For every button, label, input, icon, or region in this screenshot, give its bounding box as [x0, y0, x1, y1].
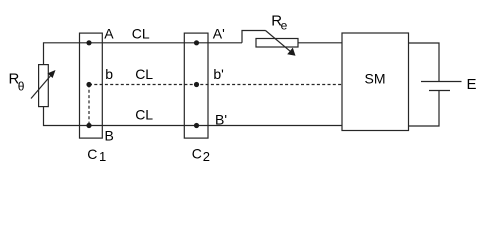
- svg-text:2: 2: [203, 149, 210, 164]
- battery plate short: [429, 90, 450, 92]
- arrowhead Rtheta: [48, 70, 56, 78]
- node b': [194, 82, 199, 87]
- svg-text:A': A': [213, 25, 225, 41]
- wire top-left vertical: [44, 43, 243, 65]
- wire step up to rheostat: [242, 31, 266, 43]
- wire dashed b to SM: [89, 84, 342, 86]
- node A': [194, 40, 199, 45]
- svg-text:B': B': [215, 111, 227, 127]
- svg-text:C: C: [192, 145, 202, 161]
- svg-text:CL: CL: [135, 107, 153, 123]
- rheostat Re arrow: [266, 31, 293, 54]
- rheostat Re body: [256, 39, 298, 48]
- arrowhead Re: [287, 48, 295, 56]
- battery wire bottom: [409, 91, 440, 127]
- wire bottom-left: [44, 107, 343, 126]
- battery plate long: [421, 81, 462, 83]
- svg-text:SM: SM: [365, 70, 386, 86]
- node B': [194, 123, 199, 128]
- svg-text:θ: θ: [18, 80, 25, 94]
- wire rheostat to SM: [298, 42, 342, 44]
- resistor Rtheta arrow: [31, 74, 53, 99]
- svg-text:1: 1: [99, 149, 106, 164]
- node b: [86, 82, 91, 87]
- wire dashed b to B: [88, 85, 90, 126]
- connector C1: [80, 33, 103, 138]
- svg-text:b': b': [213, 66, 223, 82]
- svg-text:CL: CL: [135, 66, 153, 82]
- box SM: [342, 33, 409, 131]
- svg-text:A: A: [104, 25, 114, 41]
- battery wire top: [409, 43, 440, 82]
- resistor Rtheta body: [39, 65, 49, 107]
- connector C2: [184, 33, 208, 138]
- svg-text:b: b: [105, 66, 113, 82]
- svg-text:C: C: [87, 146, 97, 162]
- svg-text:CL: CL: [132, 25, 150, 41]
- node A: [86, 40, 91, 45]
- node B: [86, 123, 91, 128]
- svg-text:E: E: [467, 76, 477, 93]
- svg-text:e: e: [281, 19, 288, 33]
- svg-text:B: B: [105, 128, 114, 144]
